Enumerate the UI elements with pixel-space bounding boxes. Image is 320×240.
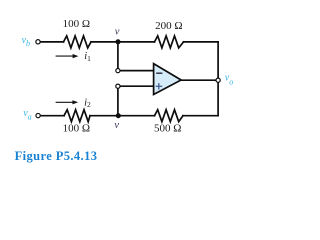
svg-text:i1: i1: [84, 51, 91, 63]
svg-text:v: v: [114, 120, 119, 131]
svg-text:100 Ω: 100 Ω: [63, 123, 90, 135]
svg-text:v: v: [115, 26, 120, 37]
svg-text:Figure P5.4.13: Figure P5.4.13: [15, 149, 98, 163]
svg-text:i2: i2: [84, 97, 91, 109]
svg-text:va: va: [23, 108, 31, 121]
svg-text:100 Ω: 100 Ω: [63, 18, 90, 30]
svg-text:vo: vo: [225, 73, 233, 87]
svg-text:200 Ω: 200 Ω: [155, 20, 182, 32]
svg-text:vb: vb: [22, 35, 30, 48]
svg-text:500 Ω: 500 Ω: [154, 122, 181, 134]
